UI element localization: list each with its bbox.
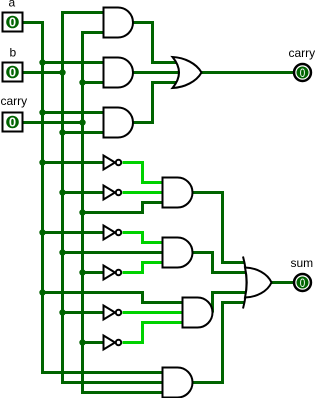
junction net a at (42,232)	[39, 229, 45, 235]
wire net carry-in branch to AND U11	[83, 203, 164, 213]
junction net b at (62,72)	[59, 69, 65, 75]
wire net a branch to NOT U5	[43, 161, 104, 164]
NOT gate U10	[104, 336, 122, 350]
wire net b branch to AND U12	[63, 251, 164, 254]
wire net a branch to AND U13	[43, 293, 184, 303]
junction net carry-in at (82,212)	[79, 209, 85, 215]
junction net b at (62,132)	[59, 129, 65, 135]
AND gate U3 (a AND b)	[104, 108, 134, 138]
AND gate U1 (b AND cin)	[104, 8, 134, 38]
svg-text:carry: carry	[289, 46, 316, 60]
input pin a	[3, 13, 23, 32]
AND gate U13 (term a not-b not-c)	[183, 298, 213, 328]
input pin b	[3, 63, 23, 82]
svg-text:0: 0	[300, 276, 306, 290]
output pin sum	[294, 274, 311, 291]
NOT gate U7	[104, 226, 122, 240]
wire OR U4 output to carry pin	[202, 71, 294, 74]
AND gate U11 (term not-a not-b c)	[163, 178, 193, 208]
wire NOT U6 output (high, bright green)	[123, 191, 164, 194]
junction net b at (62,312)	[59, 309, 65, 315]
junction net a at (42,62)	[39, 59, 45, 65]
svg-text:0: 0	[9, 65, 16, 80]
NOT gate U5	[104, 156, 122, 170]
wire AND U2 output to OR	[133, 71, 181, 74]
junction net b at (62,192)	[59, 189, 65, 195]
wire AND U11 output to sum OR	[193, 193, 246, 263]
junction net a at (42,162)	[39, 159, 45, 165]
wire AND U12 output to sum OR	[193, 253, 248, 273]
junction net carry-in at (82,122)	[79, 119, 85, 125]
wire net b branch to AND U3	[63, 131, 105, 134]
wire net b branch to NOT U6	[63, 191, 104, 194]
wire net a branch to AND U3	[43, 111, 105, 114]
svg-text:b: b	[10, 46, 17, 60]
junction net b at (62,252)	[59, 249, 65, 255]
wire NOT U8 output (high, bright green)	[123, 263, 164, 273]
svg-text:carry: carry	[1, 94, 28, 108]
wire AND U14 output to sum OR	[193, 303, 246, 383]
junction net carry-in at (82,342)	[79, 339, 85, 345]
junction net carry-in at (82,82)	[79, 79, 85, 85]
wire NOT U9 output (high, bright green)	[123, 311, 184, 314]
svg-text:sum: sum	[291, 256, 314, 270]
svg-text:a: a	[9, 0, 16, 10]
OR gate U4 (carry out)	[173, 57, 202, 88]
wire NOT U10 output (high, bright green)	[123, 323, 184, 343]
wire sum OR output to sum pin	[272, 281, 294, 284]
wire net carry-in branch to NOT U10	[83, 341, 104, 344]
junction net carry-in at (82,272)	[79, 269, 85, 275]
wire net b branch to NOT U9	[63, 311, 104, 314]
wire AND U3 output to OR	[133, 83, 181, 123]
OR gate U15 (sum, 4 inputs) body	[245, 268, 272, 298]
NOT gate U8	[104, 266, 122, 280]
wire net a branch to NOT U7	[43, 231, 104, 234]
NOT gate U9	[104, 306, 122, 320]
wire net b: pin b to column	[24, 71, 63, 74]
output pin carry	[294, 64, 311, 81]
wire NOT U5 output (high, bright green)	[123, 163, 164, 183]
AND gate U2 (a AND cin)	[104, 58, 134, 88]
wire net carry-in: column from AND U1 down to AND U14	[83, 33, 164, 393]
svg-text:0: 0	[9, 15, 16, 30]
wire net a: pin a to column and down to AND U14	[24, 23, 163, 373]
wire AND U13 output to sum OR	[213, 293, 248, 313]
junction net a at (42,292)	[39, 289, 45, 295]
wire net carry-in branch to NOT U8	[83, 271, 104, 274]
wire NOT U7 output (high, bright green)	[123, 233, 164, 243]
wire net carry-in branch to AND U2	[83, 81, 105, 84]
svg-text:0: 0	[300, 66, 306, 80]
NOT gate U6	[104, 186, 122, 200]
wire net b: column from AND U1 down to AND U14	[63, 13, 164, 383]
svg-text:0: 0	[9, 115, 16, 130]
wire net a branch to AND U2	[43, 61, 105, 64]
OR gate U15 (sum, 4 inputs) input wing arc	[243, 257, 247, 309]
wire AND U1 output to OR	[133, 23, 181, 63]
input pin carry	[3, 113, 23, 132]
junction net a at (42,112)	[39, 109, 45, 115]
wire net carry-in: pin carry to column	[24, 121, 83, 124]
AND gate U14 (term a b c)	[163, 368, 193, 398]
AND gate U12 (term not-a b not-c)	[163, 238, 193, 268]
